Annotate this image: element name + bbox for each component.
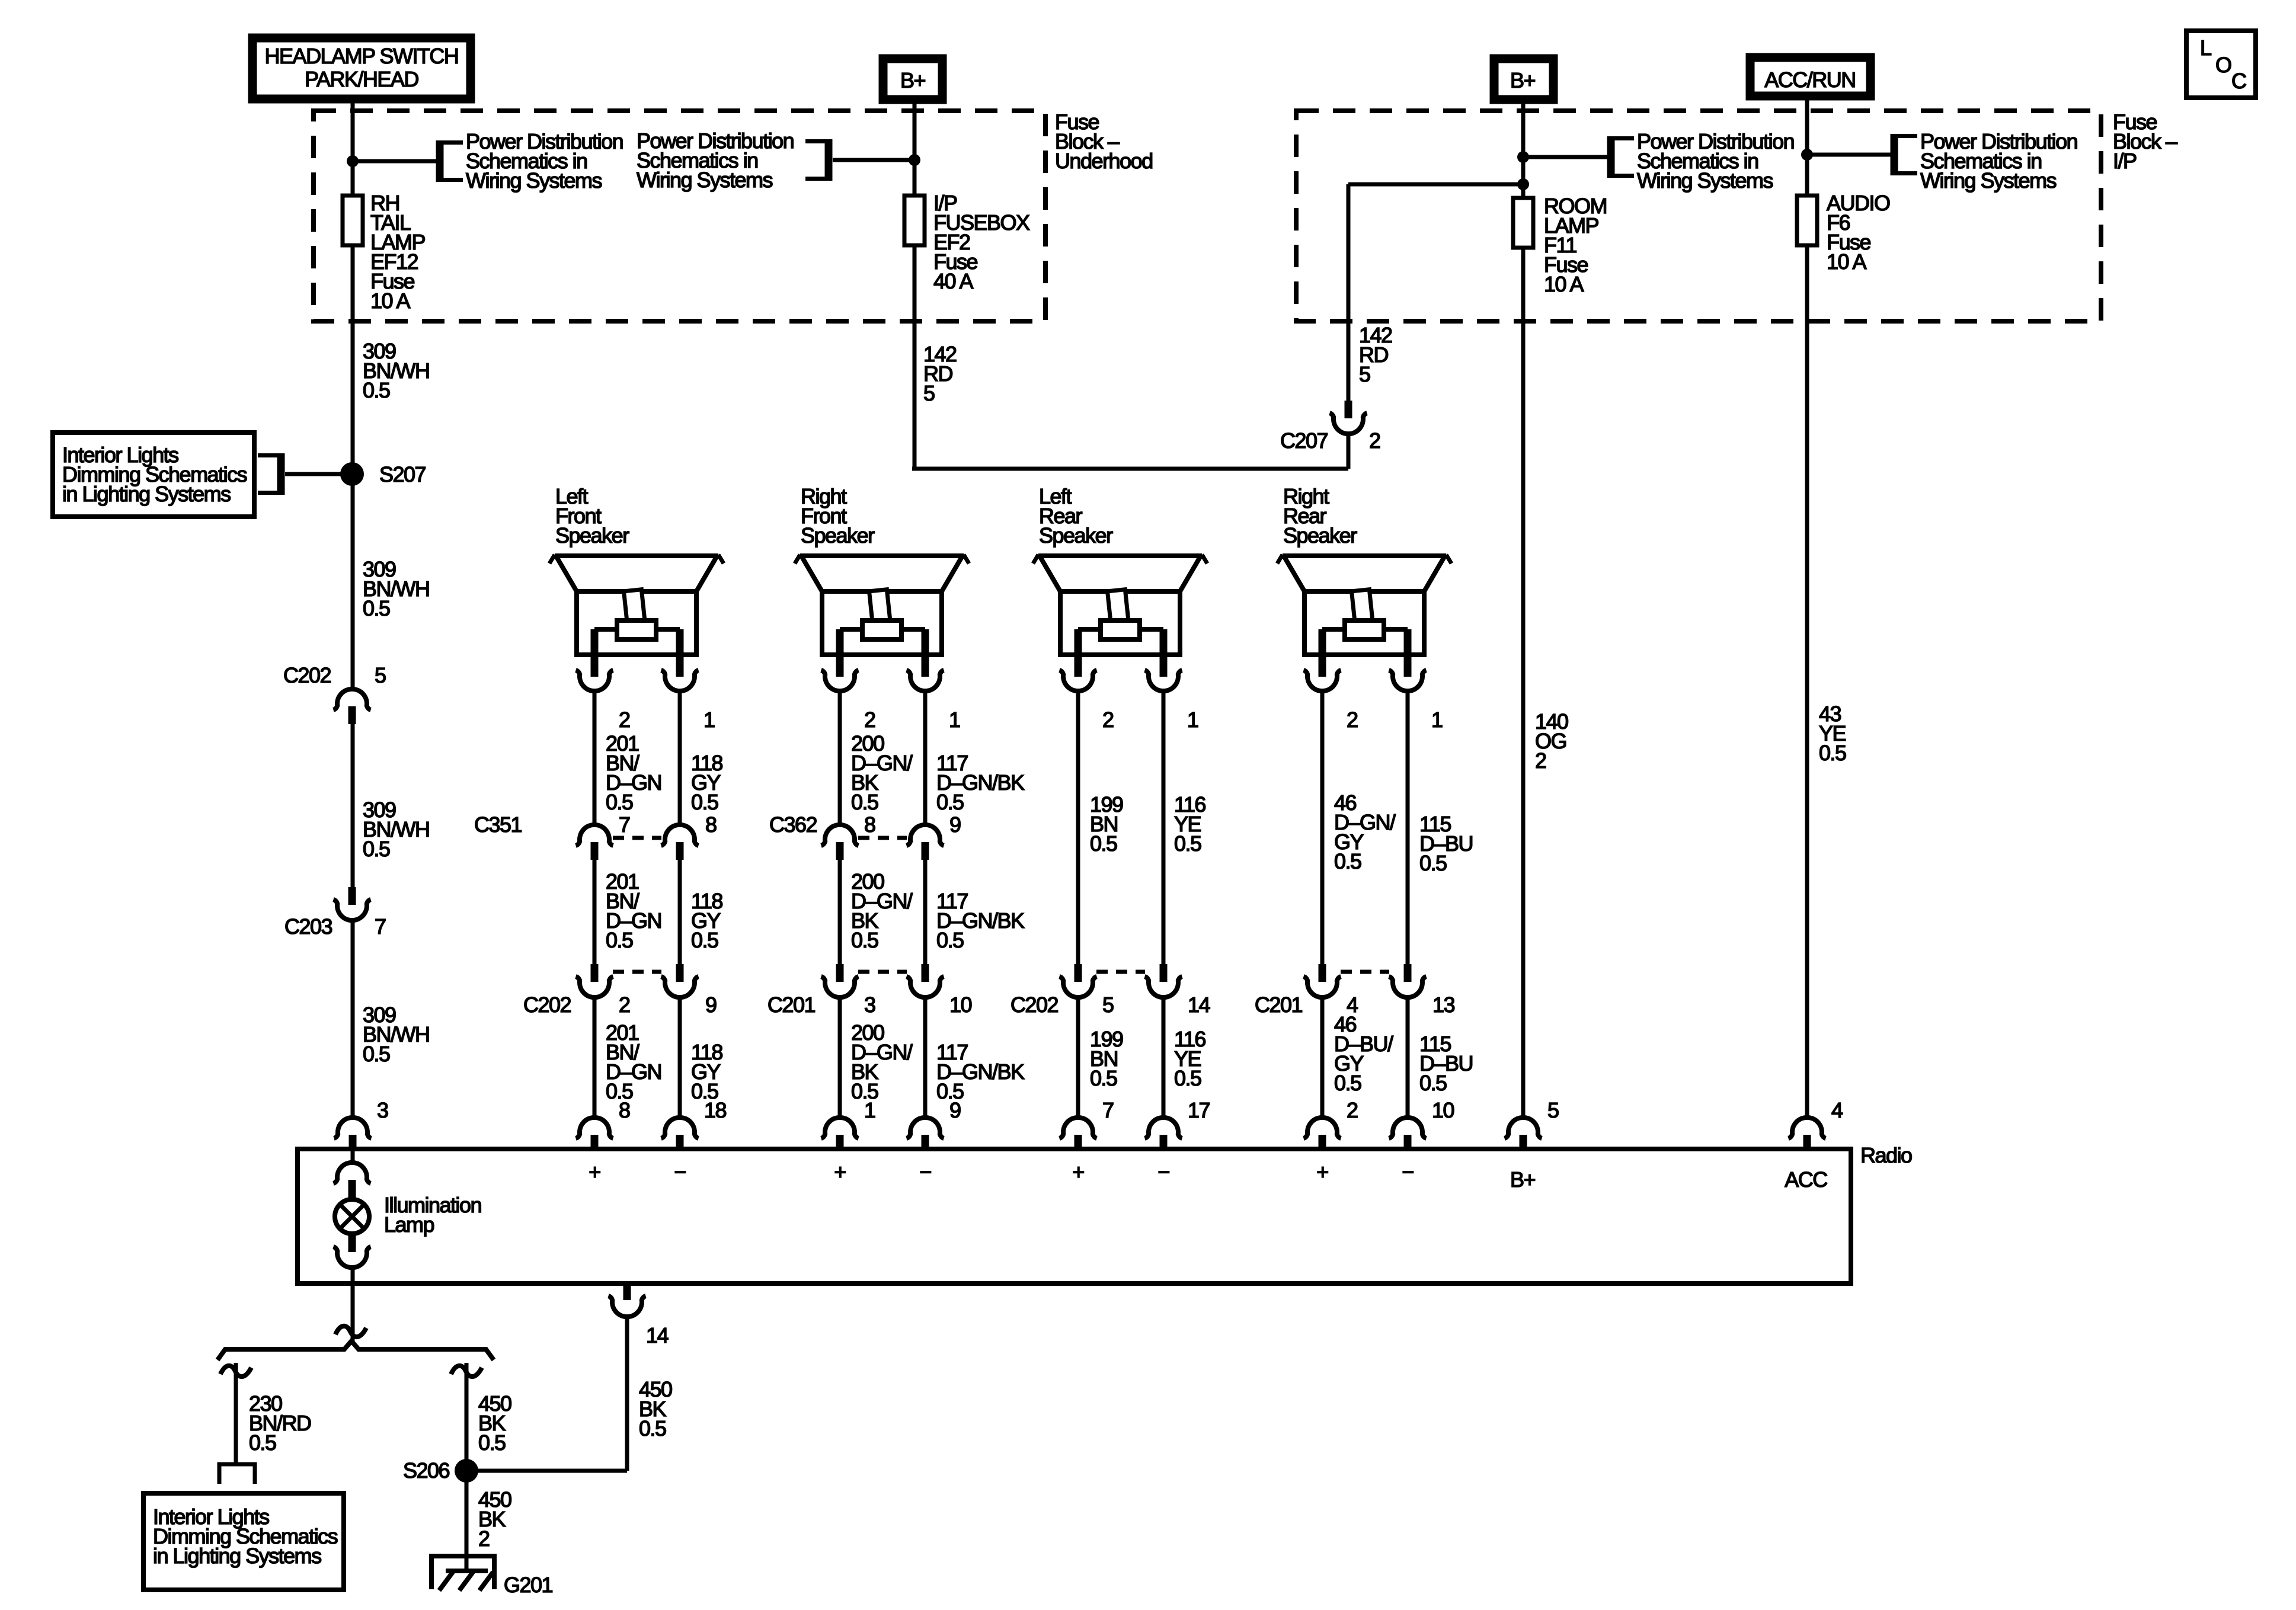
svg-text:+: + (589, 1160, 600, 1184)
svg-text:C201: C201 (768, 993, 816, 1017)
wire LF+ speaker to C351 (593, 691, 597, 825)
svg-text:C: C (2231, 69, 2246, 93)
wire RR- speaker to C201 (1406, 691, 1410, 964)
wire RF+ speaker to C362 (838, 691, 842, 825)
connector C362 pin 9 (907, 825, 944, 860)
radio pin 5 connector (1505, 1118, 1542, 1150)
right front terminal connector pin 1 (907, 670, 944, 691)
svg-text:B+: B+ (900, 68, 926, 92)
svg-text:8: 8 (619, 1098, 630, 1122)
svg-text:HEADLAMP SWITCH: HEADLAMP SWITCH (265, 44, 459, 68)
label 450 BK 2 (478, 1487, 511, 1551)
radio pin 1 connector (821, 1118, 859, 1150)
wire branch 230 BN/RD (234, 1363, 238, 1462)
connector row mating dashes (613, 970, 1389, 974)
svg-text:2: 2 (619, 708, 630, 732)
label 46 D-BU/GY lower (1334, 1012, 1393, 1095)
svg-text:Wiring Systems: Wiring Systems (466, 168, 602, 193)
LOC legend box (2186, 31, 2256, 98)
label 142 RD 5 (right) (1359, 323, 1392, 386)
radio pin 17 connector (1145, 1118, 1182, 1150)
fuse AUDIO F6 10A (1797, 196, 1817, 245)
wire LF+ C351 to C202 (593, 860, 597, 964)
break symbol right branch (451, 1366, 482, 1377)
svg-text:Underhood: Underhood (1055, 149, 1153, 173)
svg-text:2: 2 (1347, 1098, 1358, 1122)
node junction col3 lower (1517, 178, 1529, 190)
connector C202 pin 14 inline (1145, 964, 1182, 997)
speaker right front (795, 555, 969, 677)
wire LR- to radio (1162, 997, 1166, 1118)
svg-text:2: 2 (1369, 428, 1380, 453)
svg-text:ACC/RUN: ACC/RUN (1764, 68, 1856, 92)
label 118 GY lower (691, 1040, 722, 1103)
fuse ROOM LAMP F11 10A (1513, 198, 1533, 248)
connector C202 pin 5 inline (334, 689, 371, 724)
svg-text:10 A: 10 A (1827, 249, 1867, 274)
connector C202 pin 9 inline (661, 964, 699, 997)
svg-text:C207: C207 (1280, 428, 1328, 453)
svg-text:Speaker: Speaker (555, 523, 629, 548)
label C351 pin numbers (619, 812, 717, 837)
connector C362 pin 8 (821, 825, 859, 860)
label 199 BN upper (1090, 792, 1123, 856)
label fuse F11 (1544, 194, 1607, 296)
wire B+ IP to fuse F11 (1521, 100, 1526, 198)
connector C201 pin 13 inline (1389, 964, 1427, 997)
svg-text:in Lighting Systems: in Lighting Systems (153, 1544, 321, 1568)
connector C202 pin 2 inline (576, 964, 613, 997)
svg-text:5: 5 (923, 381, 935, 405)
svg-text:1: 1 (1431, 708, 1443, 732)
wire C202 to C203 (351, 724, 355, 887)
wire junction to bracket col4 (1807, 153, 1891, 157)
wire S206 to pin14 drop (466, 1469, 627, 1473)
svg-text:Speaker: Speaker (1283, 523, 1357, 548)
svg-text:10 A: 10 A (370, 289, 411, 313)
svg-text:+: + (1072, 1160, 1084, 1184)
label 116 YE upper (1174, 792, 1205, 856)
wire LF+ to radio (593, 997, 597, 1118)
label 309 BN/WH 0.5 (4) (363, 1003, 430, 1066)
label Right Rear Speaker (1283, 484, 1357, 548)
svg-text:Lamp: Lamp (384, 1212, 434, 1237)
wire radio pin 14 down (625, 1317, 629, 1471)
svg-text:9: 9 (705, 993, 717, 1017)
wire RR- to radio (1406, 997, 1410, 1118)
speaker right rear (1277, 555, 1451, 677)
svg-text:Wiring Systems: Wiring Systems (1637, 168, 1773, 193)
svg-text:10 A: 10 A (1544, 272, 1584, 296)
svg-text:C202: C202 (1011, 993, 1059, 1017)
radio pin 3 connector (334, 1118, 372, 1150)
label fuse EF12 (370, 191, 426, 313)
svg-text:13: 13 (1432, 993, 1455, 1017)
label 309 BN/WH 0.5 (1) (363, 339, 430, 402)
svg-text:5: 5 (1102, 993, 1114, 1017)
label power distribution col4 (1920, 129, 2077, 193)
label 117 D-GN/BK middle (936, 889, 1025, 952)
label 309 BN/WH 0.5 (3) (363, 798, 430, 861)
radio terminal labels + - B+ ACC (589, 1160, 1827, 1192)
wire ACC/RUN to fuse F6 (1805, 96, 1809, 196)
wire RF+ C362 to C201 (838, 860, 842, 964)
wire lamp to radio bottom (351, 1267, 355, 1282)
svg-text:0.5: 0.5 (1334, 1071, 1361, 1095)
svg-text:B+: B+ (1510, 1167, 1536, 1192)
label 230 BN/RD 0.5 (249, 1391, 311, 1455)
label C201 rear pins (1347, 993, 1455, 1017)
speaker left front (549, 555, 724, 677)
radio pin numbers (377, 1098, 1843, 1122)
svg-text:2: 2 (1535, 748, 1546, 773)
wire bracket to S207 (285, 472, 352, 476)
svg-text:9: 9 (949, 812, 961, 837)
wire 309 BN/WH fuse to S207 (351, 245, 355, 474)
svg-text:C202: C202 (283, 663, 331, 687)
svg-text:−: − (1157, 1160, 1169, 1184)
right rear terminal connector pin 1 (1389, 670, 1427, 691)
label 200 D-GN/BK upper (851, 731, 913, 814)
label Fuse Block - Underhood (1055, 110, 1153, 173)
svg-text:PARK/HEAD: PARK/HEAD (305, 67, 418, 91)
svg-text:C201: C201 (1255, 993, 1303, 1017)
wire to power distribution bracket col1 (353, 159, 436, 164)
label C202 rear pins (1102, 993, 1210, 1017)
wire LF- to radio (678, 997, 682, 1118)
svg-text:40 A: 40 A (933, 269, 974, 293)
connector C351 mating dash (613, 836, 661, 840)
connector C201 pin 3 inline (821, 964, 859, 997)
svg-text:0.5: 0.5 (1090, 831, 1117, 856)
svg-text:18: 18 (704, 1098, 727, 1122)
svg-text:ACC: ACC (1785, 1167, 1827, 1192)
wire S207 to C202 (351, 474, 355, 689)
bracket reference power distribution col1 (436, 140, 444, 182)
label 118 GY upper (691, 751, 722, 814)
wire lamp exits radio (351, 1283, 355, 1345)
svg-text:G201: G201 (504, 1573, 553, 1597)
connector C351 pin 8 (661, 825, 699, 860)
node junction col3 upper (1517, 151, 1529, 163)
wire LF- speaker to C351 (678, 691, 682, 825)
wire branch 450 BK to S206 (465, 1363, 469, 1556)
label 43 YE 0.5 (1819, 702, 1846, 765)
svg-text:2: 2 (864, 708, 875, 732)
radio pin 8 connector (576, 1118, 613, 1150)
left front terminal connector pin 1 (661, 670, 699, 691)
svg-text:Speaker: Speaker (1039, 523, 1113, 548)
label 450 BK 0.5 pin14 (639, 1377, 672, 1441)
bracket reference power distribution col2 (825, 139, 833, 181)
svg-text:2: 2 (1102, 708, 1114, 732)
svg-text:S206: S206 (403, 1458, 450, 1483)
wire horizontal 142 RD to C207 (912, 467, 1348, 471)
radio pin 14 connector (609, 1283, 646, 1317)
right front terminal connector pin 2 (821, 670, 859, 691)
speaker pin numbers (619, 708, 1443, 732)
label 116 YE lower (1174, 1027, 1205, 1090)
bracket reference power distribution col3 (1607, 136, 1615, 178)
svg-text:1: 1 (949, 708, 960, 732)
svg-text:0.5: 0.5 (363, 596, 390, 620)
svg-text:C202: C202 (523, 993, 571, 1017)
svg-text:2: 2 (478, 1526, 490, 1551)
dashed box Fuse Block - Underhood (314, 111, 1045, 321)
radio pin 18 connector (661, 1118, 699, 1150)
speaker left rear (1033, 555, 1207, 677)
svg-text:0.5: 0.5 (691, 928, 718, 952)
wire junction to C207 branch (1348, 183, 1523, 187)
node junction col2 (909, 154, 920, 166)
bracket reference power distribution col4 (1891, 134, 1898, 175)
wire RR+ speaker to C201 (1320, 691, 1325, 964)
svg-text:4: 4 (1831, 1098, 1843, 1122)
svg-text:0.5: 0.5 (606, 928, 633, 952)
wire C207 up to room lamp branch (1347, 184, 1351, 401)
svg-text:0.5: 0.5 (478, 1430, 506, 1455)
connector C203 pin 7 inline (334, 887, 371, 920)
label 115 D-BU lower (1419, 1032, 1473, 1095)
wire RF+ to radio (838, 997, 842, 1118)
connector C207 pin 2 (1330, 401, 1367, 434)
right rear terminal connector pin 2 (1304, 670, 1341, 691)
wire LF- C351 to C202 (678, 860, 682, 964)
svg-text:2: 2 (1347, 708, 1358, 732)
radio box (298, 1149, 1851, 1283)
svg-text:0.5: 0.5 (1419, 851, 1447, 875)
svg-text:14: 14 (646, 1323, 669, 1347)
wire LR+ to radio (1076, 997, 1080, 1118)
wire headlamp switch to fuse EF12 (351, 99, 355, 196)
label Left Rear Speaker (1039, 484, 1113, 548)
svg-text:−: − (1402, 1160, 1414, 1184)
radio pin 4 connector (1789, 1118, 1826, 1150)
wire junction to bracket col3 (1523, 155, 1607, 159)
svg-text:C362: C362 (769, 812, 817, 837)
radio pin 9 connector (907, 1118, 944, 1150)
svg-text:Wiring Systems: Wiring Systems (637, 168, 773, 192)
svg-text:1: 1 (1187, 708, 1198, 732)
svg-text:9: 9 (949, 1098, 961, 1122)
svg-text:−: − (674, 1160, 686, 1184)
svg-text:C351: C351 (474, 812, 522, 837)
svg-text:0.5: 0.5 (1174, 1066, 1201, 1090)
label fuse F6 (1827, 191, 1890, 274)
wire radio pin3 to lamp connector (351, 1151, 355, 1163)
svg-text:0.5: 0.5 (249, 1430, 276, 1455)
wire junction to bracket col2 (833, 158, 914, 162)
wire C203 to radio pin 3 (351, 920, 355, 1118)
label power distribution col3 (1637, 129, 1794, 193)
label Fuse Block - I/P (2113, 110, 2177, 173)
break symbol left branch (220, 1366, 251, 1377)
label power distribution col2 (637, 129, 794, 192)
label 201 BN/D-GN middle (606, 869, 661, 952)
svg-text:2: 2 (619, 993, 630, 1017)
svg-text:0.5: 0.5 (936, 928, 964, 952)
splice S206 (455, 1459, 478, 1483)
left rear terminal connector pin 2 (1060, 670, 1097, 691)
svg-text:+: + (1316, 1160, 1328, 1184)
svg-text:7: 7 (375, 914, 386, 939)
svg-text:Radio: Radio (1860, 1143, 1912, 1167)
svg-text:C203: C203 (284, 914, 332, 939)
fuse RH TAIL LAMP EF12 10A (343, 196, 363, 245)
svg-text:0.5: 0.5 (363, 837, 390, 861)
label 199 BN lower (1090, 1027, 1123, 1090)
label 201 BN/D-GN lower (606, 1020, 661, 1103)
left rear terminal connector pin 1 (1145, 670, 1182, 691)
svg-text:B+: B+ (1510, 68, 1536, 92)
power box B+ (underhood) (883, 59, 942, 100)
svg-text:0.5: 0.5 (639, 1416, 666, 1441)
connector C202 pin 5 inline (1060, 964, 1097, 997)
label 450 BK 0.5 left (478, 1391, 511, 1455)
label Left Front Speaker (555, 484, 629, 548)
label power distribution col1 (466, 129, 623, 193)
lamp bottom connector (334, 1234, 371, 1267)
svg-text:10: 10 (1432, 1098, 1454, 1122)
radio pin 7 connector (1060, 1118, 1097, 1150)
svg-text:in Lighting Systems: in Lighting Systems (62, 482, 231, 506)
label 200 D-GN/BK middle (851, 869, 913, 952)
power box HEADLAMP SWITCH PARK/HEAD (252, 38, 471, 99)
wire RR+ to radio (1320, 997, 1325, 1118)
box Interior Lights Dimming (bottom) (143, 1493, 344, 1590)
svg-text:+: + (834, 1160, 846, 1184)
label 115 D-BU upper (1419, 812, 1473, 875)
label 201 BN/D-GN upper (606, 731, 661, 814)
label 118 GY middle (691, 889, 722, 952)
svg-text:0.5: 0.5 (363, 1042, 390, 1066)
label 309 BN/WH 0.5 (2) (363, 557, 430, 620)
svg-text:Speaker: Speaker (801, 523, 875, 548)
node junction col4 (1801, 149, 1813, 161)
wire LR- speaker to C202 (1162, 691, 1166, 964)
svg-text:3: 3 (377, 1098, 388, 1122)
brace split symbol (218, 1341, 494, 1360)
wire RF- speaker to C362 (923, 691, 928, 825)
bracket reference S207 (277, 453, 285, 495)
ground G201 (430, 1554, 496, 1590)
wire B+ to fuse EF2 (913, 100, 917, 196)
label 142 RD 5 (left) (923, 342, 957, 405)
svg-text:0.5: 0.5 (851, 928, 878, 952)
power box B+ (I/P) (1494, 59, 1553, 100)
node junction col1 (347, 155, 359, 167)
fuse I/P FUSEBOX EF2 40A (904, 196, 925, 245)
wire 142 RD fuse EF2 down (913, 245, 917, 469)
label 200 D-GN/BK lower (851, 1020, 913, 1103)
power box ACC/RUN (1750, 57, 1870, 96)
wire RF- to radio (923, 997, 928, 1118)
label C201 front pins (864, 993, 972, 1017)
label 117 D-GN/BK upper (936, 751, 1025, 814)
svg-text:0.5: 0.5 (606, 790, 633, 814)
svg-text:Wiring Systems: Wiring Systems (1920, 168, 2057, 193)
connector C201 pin 10 inline (907, 964, 944, 997)
connector C351 pin 7 (576, 825, 613, 860)
box Interior Lights Dimming (top left) (53, 433, 254, 517)
wire LR+ speaker to C202 (1076, 691, 1080, 964)
svg-text:0.5: 0.5 (1819, 741, 1846, 765)
label fuse EF2 (933, 191, 1030, 293)
label 140 OG 2 (1535, 709, 1568, 773)
svg-text:5: 5 (375, 663, 386, 687)
svg-text:O: O (2215, 53, 2231, 77)
dashed box Fuse Block - I/P (1296, 111, 2101, 321)
svg-text:0.5: 0.5 (936, 790, 964, 814)
svg-text:−: − (919, 1160, 931, 1184)
illumination lamp (335, 1199, 369, 1234)
connector C362 mating dash (858, 836, 907, 840)
svg-text:17: 17 (1188, 1098, 1210, 1122)
wire RF- C362 to C201 (923, 860, 928, 964)
left front terminal connector pin 2 (576, 670, 613, 691)
label C362 pin numbers (864, 812, 961, 837)
svg-text:5: 5 (1359, 362, 1370, 386)
label C202 front pins (619, 993, 717, 1017)
wire 43 YE to radio pin 4 (1805, 245, 1809, 1118)
wire 140 OG to radio pin 5 (1521, 248, 1526, 1118)
svg-text:0.5: 0.5 (1334, 849, 1361, 873)
svg-text:1: 1 (864, 1098, 875, 1122)
svg-text:14: 14 (1188, 993, 1210, 1017)
svg-text:0.5: 0.5 (1090, 1066, 1117, 1090)
connector C201 pin 4 inline (1304, 964, 1341, 997)
svg-text:8: 8 (705, 812, 717, 837)
svg-text:10: 10 (949, 993, 972, 1017)
break symbol main (335, 1326, 366, 1337)
svg-text:5: 5 (1547, 1098, 1559, 1122)
splice S207 (340, 462, 364, 486)
svg-text:0.5: 0.5 (1419, 1071, 1447, 1095)
svg-text:0.5: 0.5 (691, 790, 718, 814)
svg-text:S207: S207 (379, 462, 426, 486)
svg-text:I/P: I/P (2113, 149, 2137, 173)
wire C207 drop (1347, 434, 1351, 469)
bracket reference interior lights bottom (218, 1462, 257, 1467)
radio pin 10 connector (1389, 1118, 1427, 1150)
svg-text:7: 7 (1102, 1098, 1114, 1122)
svg-text:0.5: 0.5 (851, 790, 878, 814)
label Right Front Speaker (801, 484, 875, 548)
svg-text:0.5: 0.5 (1174, 831, 1201, 856)
svg-text:8: 8 (864, 812, 875, 837)
svg-text:1: 1 (703, 708, 715, 732)
svg-text:7: 7 (619, 812, 630, 837)
svg-text:0.5: 0.5 (363, 378, 390, 402)
label 117 D-GN/BK lower (936, 1040, 1025, 1103)
radio pin 2 connector (1304, 1118, 1341, 1150)
lamp top connector (334, 1163, 371, 1198)
svg-text:3: 3 (864, 993, 875, 1017)
label 46 D-GN/GY upper (1334, 790, 1396, 873)
svg-text:L: L (2200, 36, 2211, 60)
label Illumination Lamp (384, 1193, 481, 1237)
